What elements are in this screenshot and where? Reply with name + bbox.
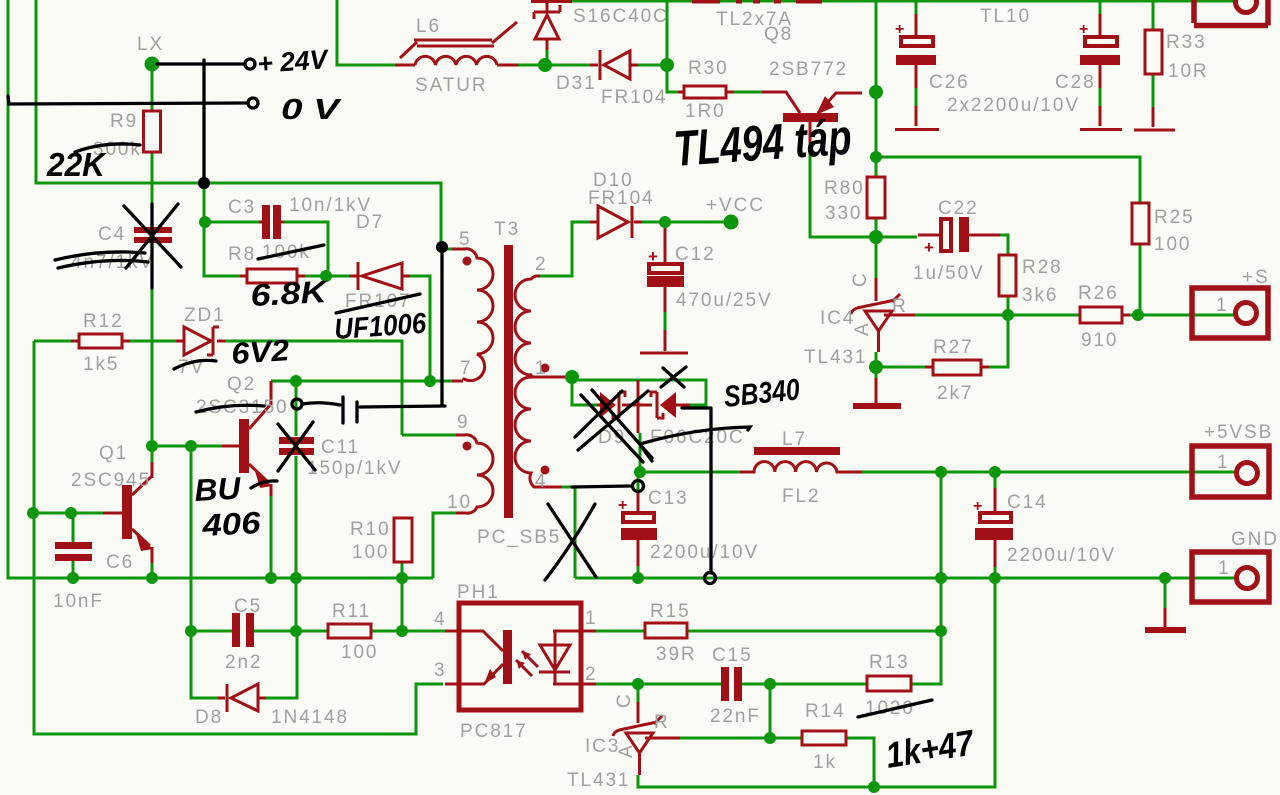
svg-text:10R: 10R: [1168, 61, 1209, 82]
wire C6 leg x=73: [72, 513, 75, 578]
transformer T3 core: [504, 245, 513, 518]
svg-text:R12: R12: [83, 311, 124, 332]
optocoupler PH1 light arrows: [516, 651, 538, 676]
svg-text:2k7: 2k7: [937, 383, 973, 404]
hand circle C13 top: [633, 481, 644, 492]
diode D7: [349, 262, 410, 290]
wire Q8 emitter junction x=876: [875, 0, 878, 278]
connector +S: [1192, 288, 1268, 338]
svg-text:330: 330: [825, 203, 862, 224]
hand X small over D9 top: [661, 367, 686, 387]
zener ZD1: [176, 327, 225, 355]
svg-text:1: 1: [1216, 295, 1228, 316]
hand strike 1020: [858, 700, 932, 717]
svg-text:SATUR: SATUR: [415, 75, 487, 96]
svg-text:4: 4: [434, 609, 446, 630]
svg-text:7: 7: [460, 358, 472, 379]
svg-text:TL431: TL431: [567, 770, 630, 791]
wire C22 right to R28: [1000, 235, 1008, 255]
wire T3 pin4 to bottom bus: [562, 487, 575, 578]
hand capacitor plates: [343, 397, 357, 423]
svg-text:C: C: [614, 692, 635, 708]
svg-text:100: 100: [1154, 234, 1191, 255]
capacitor C28 electrolytic: [1079, 14, 1122, 130]
capacitor C14 electrolytic: [973, 488, 1013, 567]
svg-text:A: A: [852, 321, 873, 336]
shunt reg IC3 TL431: [613, 702, 680, 775]
wire Q2 emitter leg: [270, 496, 273, 578]
wire PH1 pin2 to C15: [596, 683, 721, 686]
diode D8: [218, 684, 266, 712]
wire x=36 top to y183 bus: [36, 0, 452, 249]
svg-text:+VCC: +VCC: [706, 195, 765, 216]
svg-text:R15: R15: [650, 601, 691, 622]
hand X over C4: [124, 204, 181, 288]
svg-text:PC817: PC817: [460, 721, 528, 742]
svg-text:TL431: TL431: [804, 347, 867, 368]
svg-text:+: +: [924, 238, 934, 257]
svg-text:100: 100: [341, 642, 378, 663]
resistor R30: [678, 86, 734, 98]
wire R13 right corner up: [911, 631, 941, 684]
resistor R15: [645, 623, 687, 638]
svg-text:9: 9: [457, 412, 469, 433]
svg-text:R11: R11: [332, 601, 371, 622]
zener S16C40C: [531, 0, 572, 50]
capacitor C11: [279, 437, 314, 455]
resistor R9: [144, 111, 161, 152]
wire primary top rail y65: [337, 0, 684, 92]
wire R33 drop: [1152, 1, 1155, 107]
dual diode D9 right: [638, 380, 690, 433]
resistor R10: [394, 518, 412, 562]
wire C28 drop: [1099, 1, 1102, 106]
transistor Q2: [222, 381, 272, 496]
capacitor C4: [134, 227, 172, 243]
svg-text:0 V: 0 V: [281, 94, 343, 126]
svg-text:1: 1: [1217, 452, 1229, 473]
transistor Q1: [103, 462, 153, 563]
wire top rail y1: [572, 0, 1234, 3]
wire T3 pin1 node to D9: [565, 377, 706, 405]
wire bottom bus right y578: [575, 577, 1235, 580]
transformer T3 winding 5-7: [452, 249, 493, 381]
wire R11 to PH1 pin4: [371, 630, 445, 633]
svg-text:+S: +S: [1242, 267, 1270, 288]
wire T3 pin10 corner: [433, 513, 456, 578]
svg-text:22nF: 22nF: [710, 706, 761, 727]
wire C26 drop: [915, 1, 918, 106]
svg-text:R: R: [892, 296, 908, 317]
svg-text:C22: C22: [938, 198, 979, 219]
shunt reg IC4 TL431: [851, 278, 915, 352]
hand wire +24V: [157, 62, 244, 65]
top edge red stubs: [692, 0, 822, 4]
svg-text:FR104: FR104: [601, 87, 668, 108]
diode D31: [590, 50, 638, 80]
svg-text:GND: GND: [1231, 529, 1279, 550]
hand X over D9: [575, 390, 652, 462]
svg-text:R33: R33: [1166, 32, 1207, 53]
wire x=191 drive leg down: [190, 446, 193, 631]
hand strike 4n7: [55, 252, 148, 268]
svg-text:C: C: [850, 271, 871, 287]
wire R26 right to +S: [1127, 314, 1235, 317]
wire D7 cathode corner down to pin7 bus: [402, 276, 430, 381]
capacitor C12 electrolytic: [640, 228, 688, 353]
svg-text:BU: BU: [194, 471, 243, 508]
svg-text:2200u/10V: 2200u/10V: [1007, 545, 1116, 566]
wire feedback rail x=34 R12 to PH1 pin3 bus: [34, 341, 443, 734]
ground right: [1145, 608, 1186, 633]
wire C15 mid leg down: [769, 684, 772, 738]
optocoupler PH1 phototransistor: [459, 630, 512, 684]
svg-text:R30: R30: [688, 58, 729, 79]
svg-text:D8: D8: [195, 707, 223, 728]
resistor R25: [1132, 203, 1149, 244]
hand wire +24V drop: [202, 60, 205, 181]
svg-text:D7: D7: [356, 212, 384, 233]
svg-text:C26: C26: [929, 72, 970, 93]
capacitor C5: [232, 613, 254, 647]
svg-text:406: 406: [200, 505, 262, 543]
svg-text:ZD1: ZD1: [184, 305, 226, 326]
svg-text:3: 3: [434, 660, 446, 681]
optocoupler PH1 box: [445, 603, 596, 710]
svg-text:FR104: FR104: [588, 188, 655, 209]
svg-text:10: 10: [447, 492, 472, 513]
svg-text:C5: C5: [234, 596, 262, 617]
wire ZD1 net R12 to corner x=402: [34, 341, 402, 435]
svg-text:1u/50V: 1u/50V: [913, 263, 985, 284]
svg-text:A: A: [616, 743, 637, 758]
svg-text:1k5: 1k5: [83, 354, 119, 375]
svg-text:Q8: Q8: [764, 24, 793, 45]
resistor R8: [240, 269, 305, 283]
svg-text:IC4: IC4: [820, 308, 855, 329]
capacitor C3: [259, 205, 284, 239]
svg-text:+: +: [895, 21, 904, 38]
svg-text:Q2: Q2: [227, 374, 256, 395]
wire IC3 ref to R14 node: [680, 737, 802, 740]
wire Q2 collector bus y381 to T3 pin7: [271, 380, 452, 383]
wire S16C40C anode: [546, 40, 549, 65]
hand terminal 0V circle: [248, 98, 258, 108]
hand X at PC_SB5: [545, 504, 596, 580]
svg-text:R10: R10: [350, 519, 391, 540]
hand strike FR107: [336, 294, 420, 313]
svg-text:S16C40C: S16C40C: [573, 6, 669, 27]
wire C5 loop: [191, 631, 328, 698]
wire +VCC rail: [642, 221, 731, 224]
wire C11 leg x=296: [295, 381, 298, 631]
svg-text:+: +: [1079, 21, 1088, 38]
svg-text:TL10: TL10: [980, 6, 1031, 27]
svg-text:2SB772: 2SB772: [769, 59, 848, 80]
wire left rail x=8 down to bottom bus: [8, 0, 433, 578]
capacitor C6: [55, 542, 92, 561]
connector +5VSB: [1192, 446, 1269, 497]
svg-text:+5VSB: +5VSB: [1204, 422, 1273, 443]
resistor R27: [925, 360, 989, 375]
svg-text:D31: D31: [556, 73, 597, 94]
svg-text:2: 2: [585, 664, 597, 685]
wire Q1 emitter leg: [151, 563, 154, 578]
svg-text:1: 1: [1218, 558, 1230, 579]
wire D9 cathode to FL2 node: [639, 433, 642, 472]
svg-text:PH1: PH1: [457, 582, 500, 603]
connector GND: [1192, 552, 1269, 602]
wire R25 bottom: [1139, 244, 1142, 315]
svg-text:22K: 22K: [46, 146, 107, 183]
wire PH1 pin1 to R15: [596, 630, 645, 633]
svg-text:R25: R25: [1154, 207, 1195, 228]
svg-text:C11: C11: [321, 437, 360, 458]
svg-text:FL2: FL2: [782, 486, 820, 507]
wire +24V tap x=204 to C3/R8 node: [204, 183, 259, 276]
resistor R26: [1080, 307, 1130, 323]
svg-text:1: 1: [585, 608, 597, 629]
hand wire cap to T3 pin5 node: [360, 250, 445, 407]
hand wire 0V: [8, 96, 247, 104]
wire IC4 anode node y367: [876, 315, 1008, 378]
hand strike 7V: [174, 360, 216, 369]
svg-text:C13: C13: [648, 488, 689, 509]
svg-text:2n2: 2n2: [225, 652, 262, 673]
wire FL2 rail y472: [640, 471, 1235, 474]
svg-text:2x2200u/10V: 2x2200u/10V: [947, 95, 1080, 116]
resistor R28: [999, 255, 1016, 296]
resistor R14: [802, 731, 846, 745]
wire R28 bottom node y315: [915, 296, 1080, 315]
svg-text:4: 4: [535, 471, 547, 492]
wire C15 right to R13: [741, 683, 867, 686]
resistor R12: [71, 334, 130, 348]
svg-text:6V2: 6V2: [230, 334, 290, 371]
hand tick Q2 emitter: [251, 481, 277, 488]
hand strike F06C20C: [640, 427, 750, 461]
capacitor C15: [721, 667, 742, 701]
svg-text:1: 1: [535, 358, 547, 379]
svg-text:R13: R13: [869, 652, 910, 673]
wire LX node R9-C4-Q1 chain: [151, 64, 154, 462]
svg-text:L7: L7: [782, 429, 807, 450]
wire GND leg x=1165: [1164, 578, 1167, 608]
svg-text:+: +: [618, 497, 627, 514]
svg-text:R28: R28: [1022, 257, 1063, 278]
resistor R80: [867, 177, 885, 218]
dual diode D9 left: [597, 392, 652, 418]
wire C12 gap: [664, 222, 667, 330]
hand X over C11: [278, 422, 315, 471]
svg-text:2SC945: 2SC945: [71, 470, 151, 491]
svg-text:3k6: 3k6: [1022, 285, 1058, 306]
hand dot pin5 node: [436, 241, 448, 253]
resistor R13: [867, 676, 911, 691]
svg-text:100: 100: [352, 542, 389, 563]
svg-text:R: R: [654, 712, 670, 733]
inductor L7 FL2: [740, 447, 862, 472]
svg-text:R26: R26: [1078, 283, 1119, 304]
svg-text:1k: 1k: [813, 752, 837, 773]
svg-text:6.8K: 6.8K: [250, 274, 331, 313]
svg-text:C12: C12: [675, 244, 716, 265]
wire C3 right to R8 right D7 node: [281, 222, 357, 276]
svg-text:+: +: [648, 247, 658, 266]
hand dot at y183 junction: [198, 177, 210, 189]
svg-text:+ 24V: + 24V: [256, 44, 330, 79]
optocoupler PH1 led: [539, 631, 596, 684]
inductor L6 saturable: [395, 22, 518, 65]
wire R10 bottom to wire631: [401, 562, 404, 631]
svg-text:2: 2: [535, 254, 547, 275]
hand wire Q2 collector to cap: [292, 399, 302, 409]
transformer T3 winding 9-10: [456, 435, 493, 513]
svg-text:UF1006: UF1006: [333, 308, 428, 346]
wire Q1 base y513: [33, 512, 103, 515]
svg-text:150p/1kV: 150p/1kV: [307, 458, 403, 479]
svg-text:1N4148: 1N4148: [271, 707, 349, 728]
wire R15 right to +5VSB leg: [687, 472, 941, 631]
wire IC3 cathode: [637, 684, 640, 702]
svg-text:10nF: 10nF: [53, 591, 104, 612]
svg-text:2200u/10V: 2200u/10V: [650, 542, 759, 563]
svg-text:C4: C4: [98, 224, 126, 245]
svg-text:PC_SB5: PC_SB5: [477, 527, 561, 548]
svg-text:C3: C3: [228, 197, 256, 218]
wire C13 leg: [637, 472, 640, 578]
svg-text:T3: T3: [494, 219, 520, 240]
ground IC4: [853, 378, 901, 409]
connector top right partial: [1194, 0, 1268, 26]
svg-text:C6: C6: [106, 552, 134, 573]
wire Q8 collector to IC4 node: [810, 143, 917, 237]
svg-text:LX: LX: [137, 34, 164, 55]
hand circle bottom bus: [705, 573, 716, 584]
hand strike 100k: [258, 245, 324, 259]
svg-text:Q1: Q1: [99, 443, 128, 464]
svg-text:39R: 39R: [656, 644, 697, 665]
wire C14 leg: [994, 472, 997, 578]
wire D10 secondary from pin2: [540, 222, 590, 276]
svg-text:+: +: [973, 498, 982, 515]
svg-text:C15: C15: [712, 645, 753, 666]
hand wire pin4 jumper: [572, 486, 630, 487]
svg-text:5: 5: [459, 229, 471, 250]
resistor R33: [1134, 30, 1175, 130]
hand strike 300k: [75, 144, 140, 152]
hand wire D9 to bottom bus: [682, 408, 711, 573]
svg-text:C14: C14: [1007, 492, 1048, 513]
wire T3 pin9 feed: [402, 434, 456, 437]
svg-text:470u/25V: 470u/25V: [676, 290, 773, 311]
transformer T3 secondary winding: [515, 276, 565, 487]
resistor R11: [328, 624, 371, 638]
capacitor C22: [918, 217, 1000, 257]
svg-text:C28: C28: [1055, 72, 1096, 93]
hand terminal +24V circle: [245, 59, 255, 69]
svg-text:R14: R14: [805, 701, 846, 722]
svg-text:IC3: IC3: [585, 736, 620, 757]
svg-text:R80: R80: [824, 178, 865, 199]
wire Q2 base drive y446: [152, 445, 222, 448]
svg-text:R27: R27: [933, 337, 974, 358]
svg-text:L6: L6: [416, 16, 441, 37]
diode D10: [590, 206, 642, 238]
wire C14 node down to bottom loop: [638, 578, 995, 787]
svg-text:R8: R8: [228, 244, 256, 265]
capacitor C13 electrolytic: [618, 490, 657, 566]
wire R30 to Q8 base: [726, 91, 762, 94]
capacitor C26 electrolytic: [895, 14, 939, 130]
hand strike 2SC3150: [196, 405, 264, 412]
transistor Q8 pnp: [762, 92, 862, 143]
wire y157 to R25: [876, 157, 1140, 203]
svg-text:910: 910: [1081, 330, 1118, 351]
svg-text:R9: R9: [110, 111, 138, 132]
wire R14 right corner down: [846, 738, 874, 787]
